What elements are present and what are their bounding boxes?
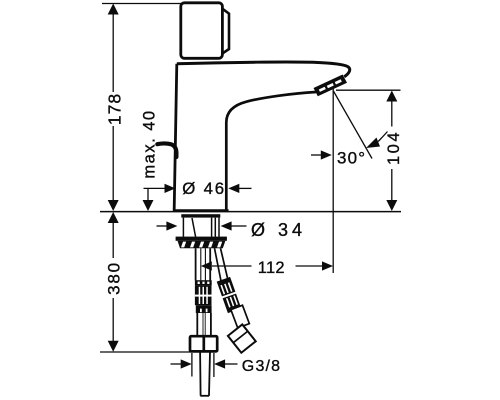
aerator slit 1 bbox=[319, 87, 326, 92]
shank flange bbox=[181, 214, 220, 217]
dimension 112 line bbox=[212, 265, 252, 267]
svg-text:178: 178 bbox=[105, 93, 125, 125]
extension line outlet top bbox=[336, 89, 401, 91]
dimension 112 right arrow bbox=[322, 261, 333, 270]
hose lower band bbox=[196, 305, 212, 313]
shank line c bbox=[214, 218, 216, 237]
dimension D46 left tail bbox=[144, 187, 166, 189]
svg-text:Ø 34: Ø 34 bbox=[251, 220, 306, 240]
angled hose upper edges bbox=[215, 248, 222, 281]
dimension 104 line bbox=[391, 101, 393, 127]
dimension 178 arrow down bbox=[108, 200, 119, 211]
shank slant line bbox=[192, 218, 196, 237]
dimension 104 arrow up bbox=[386, 91, 397, 102]
outlet axis line bbox=[332, 89, 334, 274]
dimension D34 right tail bbox=[231, 225, 246, 227]
dimension D46 left arrow bbox=[165, 184, 176, 193]
straight hose upper edges bbox=[195, 248, 197, 280]
svg-text:112: 112 bbox=[258, 259, 285, 277]
dimension D34 left tail bbox=[157, 225, 167, 227]
dimension G38 left tail bbox=[171, 363, 182, 365]
dimension 380 line bbox=[112, 222, 114, 258]
aerator bbox=[314, 75, 348, 97]
svg-text:Ø 46: Ø 46 bbox=[182, 179, 226, 198]
clamp top bar bbox=[176, 237, 227, 241]
svg-text:104: 104 bbox=[385, 130, 403, 165]
dimension G38 right tail bbox=[225, 363, 238, 365]
hose collar band bbox=[195, 280, 212, 285]
dimension max.40 arrow down bbox=[143, 200, 154, 211]
30deg pointer arrow bbox=[321, 150, 332, 159]
angled hose braid bbox=[216, 277, 242, 314]
dimension max.40 line bbox=[147, 188, 149, 201]
svg-text:G3/8: G3/8 bbox=[242, 358, 281, 375]
dimension G38 ext line right bbox=[213, 353, 215, 377]
faucet bottom edge bbox=[173, 209, 229, 212]
angled hose end nut bbox=[228, 324, 256, 352]
shank line b bbox=[211, 218, 213, 237]
handle knob bbox=[223, 9, 230, 54]
faucet underside curve bbox=[226, 92, 316, 210]
dimension 178 arrow up bbox=[108, 4, 119, 15]
extension line top bbox=[102, 3, 184, 5]
shank line d bbox=[218, 218, 220, 237]
shank left line bbox=[182, 218, 184, 237]
dimension D34 left arrow bbox=[166, 221, 177, 230]
dimension 112 left arrow bbox=[201, 261, 212, 270]
clamp wedge bbox=[178, 241, 226, 248]
pull rod lines bbox=[200, 248, 202, 280]
hose braid block bbox=[195, 286, 212, 306]
dimension G38 left arrow bbox=[181, 359, 192, 368]
lower band slits bbox=[200, 309, 208, 313]
aerator slit bbox=[335, 79, 342, 84]
30deg pointer tail bbox=[311, 154, 321, 156]
dimension 380 arrow down bbox=[108, 341, 119, 352]
svg-text:30°: 30° bbox=[337, 149, 366, 168]
straight hose lower edges bbox=[196, 313, 198, 336]
dimension D46 right tail bbox=[239, 187, 252, 189]
dimension 380 arrow up bbox=[108, 212, 119, 223]
braid white mid slit bbox=[195, 295, 212, 297]
nut divider bbox=[202, 336, 205, 351]
spray leader arrow bbox=[366, 138, 380, 149]
connection nut bbox=[190, 336, 217, 351]
aerator slit bbox=[327, 83, 334, 88]
angled hose tube bbox=[231, 305, 249, 328]
dimension G38 ext line left bbox=[191, 353, 193, 377]
braid white slits bbox=[199, 287, 208, 304]
dimension 104 arrow down bbox=[386, 200, 397, 211]
dimension G38 right arrow bbox=[214, 359, 225, 368]
collar slits bbox=[198, 282, 210, 284]
faucet top edge and spout bbox=[177, 62, 350, 77]
handle body bbox=[181, 3, 223, 59]
spray 30deg line bbox=[333, 91, 372, 159]
dimension 178 line bbox=[112, 13, 114, 92]
tail pipe bbox=[199, 352, 202, 396]
drain lever bbox=[157, 143, 176, 157]
clamp slashes bbox=[181, 242, 222, 248]
deck reference line bbox=[100, 211, 401, 213]
faucet left edge bbox=[174, 64, 177, 211]
dimension D46 right arrow bbox=[228, 184, 239, 193]
spray leader tail bbox=[378, 132, 387, 142]
svg-text:380: 380 bbox=[105, 261, 124, 295]
dimension D34 right arrow bbox=[221, 221, 232, 230]
bottom reference line bbox=[100, 351, 191, 353]
